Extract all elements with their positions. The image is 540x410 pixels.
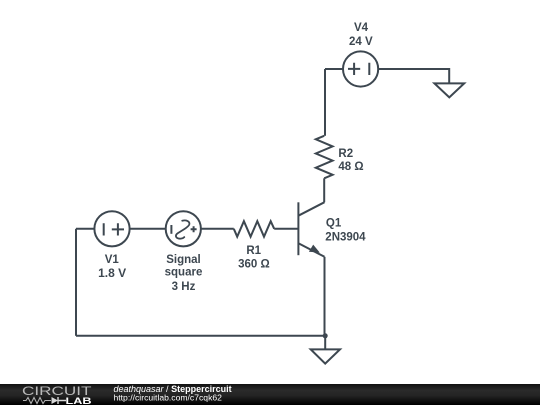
svg-text:3 Hz: 3 Hz [172,281,196,293]
svg-text:R1: R1 [246,245,261,257]
ground bottom [311,349,340,363]
wire collector (R2 bottom to transistor) [323,178,325,202]
svg-text:Signal: Signal [166,254,201,266]
svg-text:http://circuitlab.com/c7cqk62: http://circuitlab.com/c7cqk62 [114,392,223,402]
svg-text:V4: V4 [354,22,369,34]
wire ground stub bottom [324,336,326,350]
wire vertical rail top (corner down to R2 top) [324,69,326,136]
wire signal source to R1 [201,228,234,230]
svg-text:360 Ω: 360 Ω [238,258,270,270]
svg-text:2N3904: 2N3904 [325,231,366,243]
signal source (square, 3 Hz) [166,211,201,246]
ground top right [434,83,464,97]
wire V1 left [76,228,94,230]
resistor R1 [234,221,274,237]
resistor R2 [316,136,333,179]
wire V1 to signal source [130,228,166,230]
wire R1 to base [274,228,298,230]
wire bottom rail [76,335,325,337]
svg-text:1.8 V: 1.8 V [98,266,126,280]
svg-text:Q1: Q1 [326,218,342,230]
svg-text:48 Ω: 48 Ω [338,161,363,173]
junction node bottom [323,333,328,338]
svg-text:V1: V1 [105,254,120,266]
wire V4 right to ground corner [378,69,449,83]
svg-text:square: square [165,266,203,278]
wire emitter down to bottom rail [324,257,326,336]
svg-text:R2: R2 [338,148,353,160]
svg-text:LAB: LAB [66,396,92,405]
wire top corner to V4 left [325,68,343,70]
CircuitLab logo [22,384,92,407]
wire left vertical [75,229,77,336]
voltage source V1 [94,211,129,246]
svg-text:24 V: 24 V [349,36,373,48]
transistor Q1 [298,202,324,257]
voltage source V4 [343,51,378,86]
footer bar [0,384,540,405]
